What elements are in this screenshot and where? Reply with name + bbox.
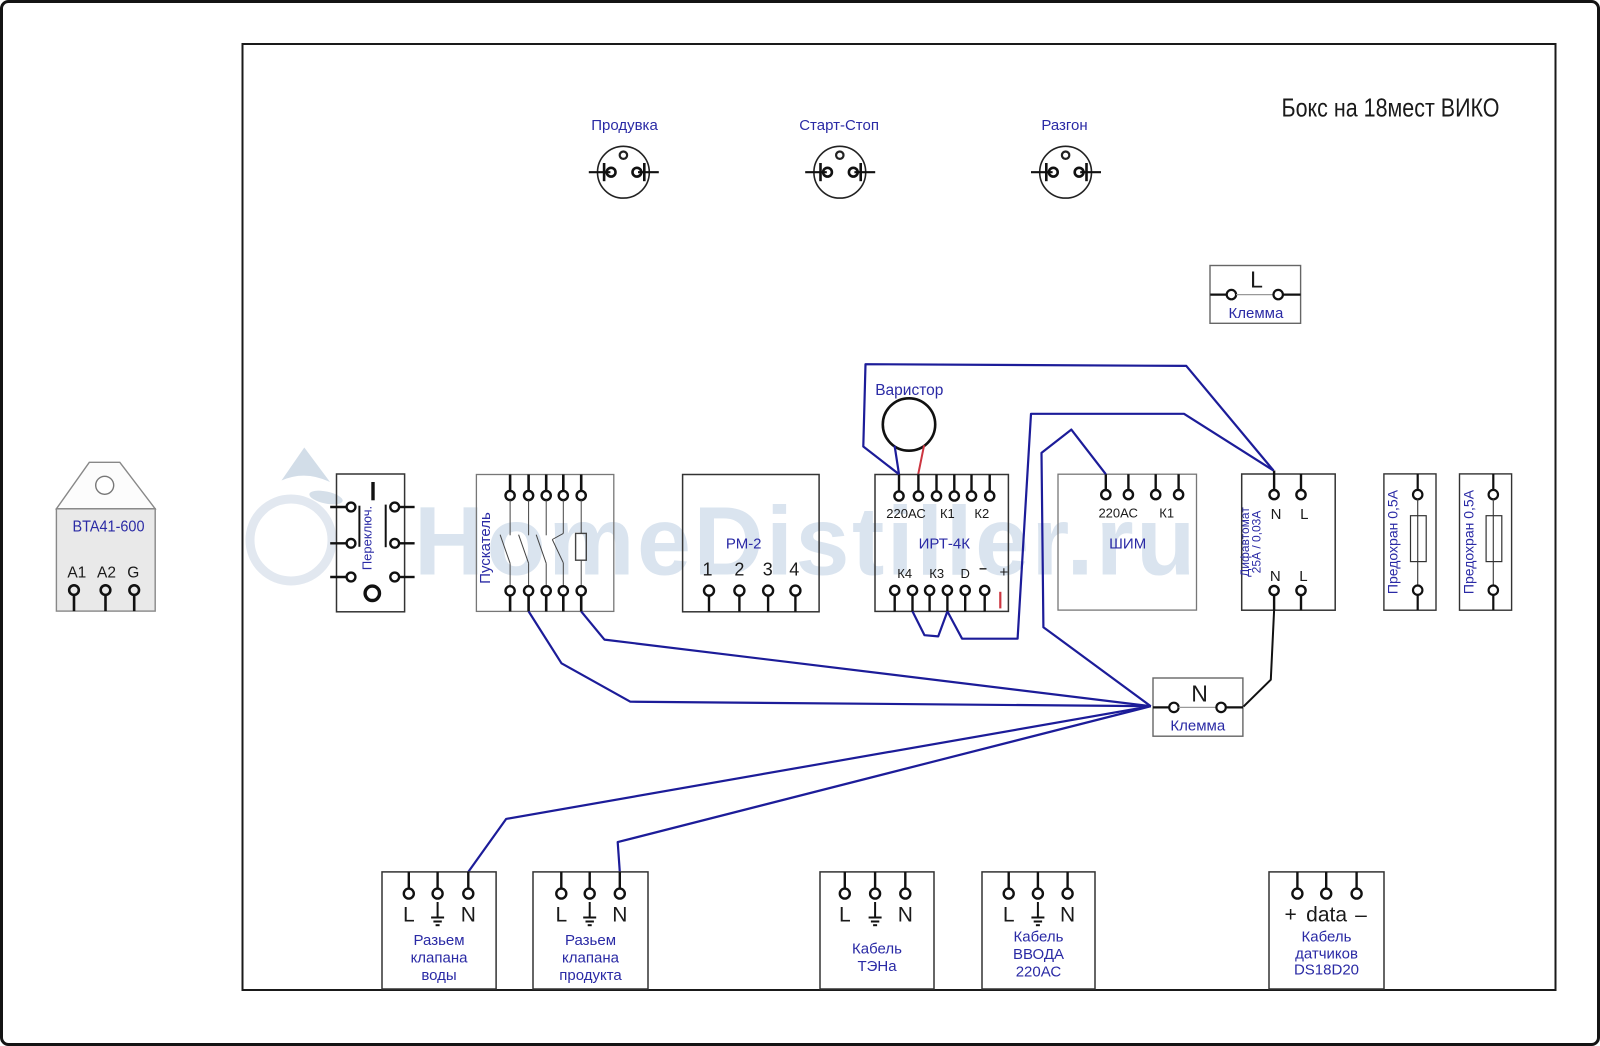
svg-text:L: L [1250, 267, 1263, 293]
connector Старт-Стоп [805, 146, 875, 198]
Кабель датчиков DS18D20 pin plus [1292, 872, 1302, 899]
svg-text:220АС: 220АС [1098, 506, 1137, 521]
svg-text:клапана: клапана [411, 950, 469, 967]
controller "ИРТ-4К" [875, 475, 1008, 612]
Дифавтомат label N top [1271, 506, 1282, 523]
connector Старт-Стоп label [799, 117, 879, 134]
ШИМ top pin 4 [1174, 474, 1183, 499]
ИРТ-4К bottom pin 4 [943, 586, 952, 612]
svg-text:220АС: 220АС [1016, 964, 1062, 981]
ИРТ-4К label D [961, 566, 970, 581]
ШИМ top pin 1 [1101, 474, 1110, 499]
ИРТ-4К bottom pin 5 [961, 586, 970, 612]
svg-text:Продувка: Продувка [591, 117, 658, 134]
svg-text:ШИМ: ШИМ [1109, 536, 1146, 553]
svg-text:Старт-Стоп: Старт-Стоп [799, 117, 879, 134]
Кабель ТЭНа label L [839, 904, 851, 927]
svg-text:–: – [979, 560, 987, 576]
Кабель ВВОДА 220АС pin L [1004, 872, 1014, 899]
svg-text:D: D [961, 566, 970, 581]
ИРТ-4К label minus [979, 560, 987, 576]
ИРТ-4К label plus [1000, 564, 1009, 581]
inner schematic frame [243, 44, 1556, 990]
svg-text:2: 2 [734, 560, 744, 580]
Разьем клапана продукта pin L [556, 872, 566, 899]
connector box "Кабель ВВОДА 220АС" [982, 872, 1095, 989]
svg-text:N: N [1270, 568, 1281, 585]
ИРТ-4К top pin 6 [985, 475, 994, 501]
triac U1 pin A1 [69, 585, 79, 611]
triac U1 label A2 [97, 565, 116, 582]
Разьем клапана воды ground symbol [431, 902, 444, 925]
Разьем клапана продукта ground symbol [583, 902, 596, 925]
triac U1 label A1 [67, 565, 86, 582]
svg-text:К4: К4 [897, 566, 912, 581]
svg-text:L: L [1300, 506, 1308, 523]
Кабель ТЭНа pin N [900, 872, 910, 899]
Кабель ТЭНа pin ⏚ [870, 872, 880, 899]
svg-text:клапана: клапана [562, 950, 620, 967]
svg-text:N: N [1191, 681, 1208, 707]
Дифавтомат label N bottom [1270, 568, 1281, 585]
svg-text:Предохран 0,5А: Предохран 0,5А [1385, 489, 1401, 594]
switch "Переключ." S1 [330, 474, 414, 612]
watermark logo droplet [250, 448, 344, 582]
connector Продувка [589, 146, 659, 198]
svg-text:N: N [612, 904, 627, 927]
ИРТ-4К top pin 2 [914, 475, 923, 501]
svg-text:N: N [1060, 904, 1075, 927]
svg-text:L: L [839, 904, 851, 927]
РМ-2 pin 3 [763, 560, 773, 612]
svg-text:N: N [1271, 506, 1282, 523]
svg-text:Клемма: Клемма [1228, 305, 1283, 322]
svg-text:220АС: 220АС [886, 506, 925, 521]
svg-text:К3: К3 [929, 566, 944, 581]
Разьем клапана воды label N [461, 904, 476, 927]
wire Клемма N to Дифавтомат N bottom (black) [1244, 610, 1275, 706]
Кабель ВВОДА 220АС ground symbol [1031, 902, 1044, 925]
svg-text:1: 1 [702, 560, 712, 580]
ИРТ-4К bottom pin 2 [908, 586, 917, 612]
varistor RU1 [883, 398, 935, 450]
svg-text:data: data [1306, 904, 1347, 927]
svg-text:4: 4 [789, 560, 799, 580]
svg-text:L: L [403, 904, 415, 927]
svg-text:Кабель: Кабель [1302, 929, 1352, 946]
svg-text:Разьем: Разьем [565, 932, 616, 949]
ИРТ-4К label К1 [940, 506, 955, 521]
Кабель ВВОДА 220АС pin ⏚ [1033, 872, 1043, 899]
fuse F1 "Предохран 0,5А" [1384, 474, 1436, 610]
Дифавтомат top pin N [1270, 471, 1279, 500]
ИРТ-4К label 220АС [886, 506, 925, 521]
РМ-2 pin 1 [702, 560, 714, 612]
ИРТ-4К label К2 [974, 506, 989, 521]
svg-text:ТЭНа: ТЭНа [857, 958, 897, 975]
varistor right lead wire (red) [918, 445, 924, 474]
svg-text:–: – [1355, 904, 1367, 927]
svg-text:A2: A2 [97, 565, 116, 582]
contactor "Пускатель" K1 [476, 475, 613, 612]
Кабель датчиков DS18D20 pin data [1321, 872, 1331, 899]
svg-text:25А / 0,03А: 25А / 0,03А [1250, 511, 1264, 574]
wire ШИМ 220АС pin to Клемма N [1042, 430, 1151, 707]
ШИМ label К1 [1159, 506, 1174, 521]
ИРТ-4К top pin 5 [967, 475, 976, 501]
wire ИРТ-4К 220АС pin over varistor to Дифавтомат N top [863, 364, 1273, 474]
svg-text:N: N [898, 904, 913, 927]
Дифавтомат top pin L [1296, 474, 1305, 499]
svg-text:Кабель: Кабель [852, 941, 902, 958]
Кабель ВВОДА 220АС pin N [1063, 872, 1073, 899]
Кабель ТЭНа ground symbol [869, 902, 882, 925]
ИРТ-4К bottom pin 6 [980, 586, 989, 612]
relay module "РМ-2" [683, 475, 820, 612]
ИРТ-4К top pin 4 [950, 475, 959, 501]
wire ИРТ-4К К4 to К3 jumper [913, 611, 948, 636]
Дифавтомат label L bottom [1299, 568, 1307, 585]
Кабель датчиков DS18D20 pin minus [1352, 872, 1362, 899]
ИРТ-4К bottom pin 3 [925, 586, 934, 612]
svg-text:К1: К1 [1159, 506, 1174, 521]
svg-text:HomeDistiller.ru: HomeDistiller.ru [414, 487, 1198, 596]
svg-text:датчиков: датчиков [1295, 946, 1358, 963]
wire Клемма N to Разьем клапана продукта N [618, 706, 1151, 872]
svg-text:Предохран 0,5А: Предохран 0,5А [1461, 489, 1477, 594]
wire Пускатель pin2 to Клемма N [529, 611, 1151, 706]
svg-text:Клемма: Клемма [1170, 718, 1225, 735]
varistor left lead wire [895, 446, 899, 475]
svg-text:К2: К2 [974, 506, 989, 521]
PWM module "ШИМ" [1058, 474, 1197, 610]
svg-text:L: L [1003, 904, 1015, 927]
svg-text:BTA41-600: BTA41-600 [73, 519, 145, 536]
svg-text:DS18D20: DS18D20 [1294, 962, 1359, 979]
terminal block "Клемма" L [1210, 266, 1301, 324]
ИРТ-4К top pin 3 [932, 475, 941, 501]
triac U1 BTA41-600 package tab [56, 462, 155, 509]
Разьем клапана воды pin ⏚ [433, 872, 443, 899]
svg-text:К1: К1 [940, 506, 955, 521]
ИРТ-4К bottom pin 1 [890, 586, 899, 612]
ШИМ top pin 2 [1124, 474, 1133, 499]
Кабель ТЭНа label N [898, 904, 913, 927]
svg-text:A1: A1 [67, 565, 86, 582]
triac U1 pin A2 [101, 585, 111, 611]
svg-text:продукта: продукта [559, 967, 622, 984]
wire ИРТ-4К К3 pin to Дифавтомат N top [947, 414, 1273, 639]
svg-text:G: G [127, 565, 139, 582]
connector Разгон [1031, 146, 1101, 198]
РМ-2 pin 2 [734, 560, 744, 612]
Дифавтомат bottom pin N [1270, 586, 1279, 610]
RCBO "Дифавтомат 25А / 0,03А" [1238, 474, 1335, 610]
svg-text:L: L [1299, 568, 1307, 585]
svg-text:Разгон: Разгон [1041, 117, 1087, 134]
Кабель датчиков DS18D20 label minus [1355, 904, 1367, 927]
connector Разгон label [1041, 117, 1087, 134]
Разьем клапана продукта label L [555, 904, 567, 927]
Кабель ТЭНа pin L [840, 872, 850, 899]
svg-text:Варистор: Варистор [875, 382, 943, 399]
ШИМ label 220АС [1098, 506, 1137, 521]
Кабель ВВОДА 220АС label N [1060, 904, 1075, 927]
svg-text:Разьем: Разьем [414, 932, 465, 949]
Кабель ВВОДА 220АС label L [1003, 904, 1015, 927]
ШИМ top pin 3 [1151, 474, 1160, 499]
Дифавтомат label L top [1300, 506, 1308, 523]
svg-text:Бокс на 18мест ВИКО: Бокс на 18мест ВИКО [1282, 93, 1500, 123]
ИРТ-4К label К4 [897, 566, 912, 581]
svg-text:L: L [555, 904, 567, 927]
Кабель датчиков DS18D20 label plus [1284, 904, 1296, 927]
svg-text:+: + [1284, 904, 1296, 927]
svg-text:Пускатель: Пускатель [477, 512, 494, 584]
svg-text:N: N [461, 904, 476, 927]
wire Пускатель pin5 to Клемма N [581, 611, 1151, 706]
Разьем клапана воды label L [403, 904, 415, 927]
wire Клемма N to Разьем клапана воды N [468, 706, 1151, 872]
ИРТ-4К red mark at + pin [999, 592, 1001, 609]
Кабель датчиков DS18D20 label data [1306, 904, 1347, 927]
varistor RU1 label [875, 382, 943, 399]
svg-text:РМ-2: РМ-2 [726, 536, 762, 553]
Разьем клапана воды pin L [404, 872, 414, 899]
svg-text:3: 3 [763, 560, 773, 580]
connector box "Разьем клапана продукта" [533, 872, 648, 989]
connector box "Кабель ТЭНа" [820, 872, 934, 989]
ИРТ-4К top pin 1 [894, 475, 903, 501]
connector box "Кабель датчиков DS18D20" [1269, 872, 1384, 989]
Разьем клапана воды pin N [463, 872, 473, 899]
terminal block "Клемма" N [1153, 678, 1243, 736]
svg-text:ИРТ-4К: ИРТ-4К [919, 536, 971, 553]
svg-text:+: + [1000, 564, 1009, 581]
РМ-2 pin 4 [789, 560, 800, 612]
connector Продувка label [591, 117, 658, 134]
Дифавтомат bottom pin L [1296, 586, 1305, 610]
Разьем клапана продукта pin ⏚ [585, 872, 595, 899]
svg-text:воды: воды [421, 967, 456, 984]
ИРТ-4К label К3 [929, 566, 944, 581]
triac U1 pin G [129, 585, 139, 611]
svg-text:Переключ.: Переключ. [360, 506, 375, 570]
triac U1 BTA41-600 body [56, 509, 155, 611]
fuse F2 "Предохран 0,5А" [1460, 474, 1512, 610]
svg-text:ВВОДА: ВВОДА [1013, 946, 1064, 963]
triac U1 label G [127, 565, 139, 582]
connector box "Разьем клапана воды" [382, 872, 496, 989]
Разьем клапана продукта label N [612, 904, 627, 927]
svg-text:Кабель: Кабель [1014, 929, 1064, 946]
Разьем клапана продукта pin N [615, 872, 625, 899]
